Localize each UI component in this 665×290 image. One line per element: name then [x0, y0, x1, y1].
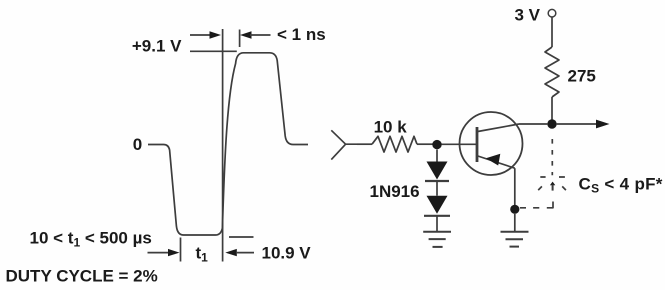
- rise-time dimension arrow (left, pointing right): [190, 34, 212, 36]
- svg-text:t1: t1: [196, 244, 209, 265]
- t1 left tick: [180, 238, 182, 262]
- wire supply to resistor: [551, 17, 553, 47]
- output arrow: [556, 123, 597, 125]
- wire base node to diode D1: [436, 150, 438, 162]
- capacitor CS center arrowhead on lead: [550, 182, 555, 186]
- capacitor CS bottom plate (dashed curved): [538, 186, 566, 190]
- wire base node to transistor: [442, 143, 477, 145]
- node emitter junction: [510, 205, 519, 214]
- svg-text:10 k: 10 k: [374, 118, 408, 137]
- node collector junction: [547, 119, 556, 128]
- t1 dimension arrow (left, pointing right): [148, 252, 170, 254]
- svg-text:10 < t1 < 500 µs: 10 < t1 < 500 µs: [30, 229, 152, 250]
- node base junction: [432, 140, 441, 149]
- transistor Q1: [460, 112, 523, 175]
- -10.9 V level line: [229, 236, 254, 238]
- ground (diodes): [423, 231, 451, 233]
- rise-time tick: [239, 30, 241, 48]
- resistor R2 10 k: [372, 136, 417, 152]
- waveform trace: [148, 53, 308, 235]
- wire collector to node: [519, 123, 548, 125]
- svg-text:275: 275: [568, 67, 596, 86]
- diode D1 1N916: [427, 162, 448, 180]
- wire D1 to D2: [436, 181, 438, 196]
- svg-text:0: 0: [133, 135, 142, 154]
- capacitor CS lead corner to emitter node (dashed): [547, 202, 553, 208]
- wire resistor to base node: [417, 143, 433, 145]
- wire emitter down: [514, 168, 516, 205]
- t1 dimension arrow (right, pointing left): [225, 249, 237, 256]
- capacitor CS top plate (dashed): [540, 176, 565, 178]
- stray capacitance CS (dashed) lead from collector node: [551, 139, 553, 175]
- ground (emitter): [501, 231, 529, 233]
- svg-text:3 V: 3 V: [515, 5, 541, 24]
- wire emitter node to ground: [514, 214, 516, 232]
- wire resistor to collector node: [551, 97, 553, 120]
- +9.1 V level line: [190, 50, 237, 52]
- rise-time vertical marker line: [222, 29, 224, 262]
- svg-text:10.9 V: 10.9 V: [262, 244, 312, 263]
- resistor R1 275: [545, 47, 559, 97]
- svg-text:1N916: 1N916: [370, 182, 420, 201]
- wire chevron to resistor: [357, 143, 372, 145]
- diode D2 1N916: [427, 196, 448, 214]
- svg-text:< 1 ns: < 1 ns: [277, 25, 326, 44]
- supply terminal 3 V: [548, 9, 556, 17]
- svg-text:DUTY CYCLE = 2%: DUTY CYCLE = 2%: [6, 266, 158, 285]
- svg-text:+9.1 V: +9.1 V: [132, 37, 182, 56]
- svg-text:CS < 4 pF*: CS < 4 pF*: [579, 175, 663, 196]
- rise-time dimension arrow (right, pointing left): [240, 31, 252, 38]
- wire D2 to ground: [436, 216, 438, 232]
- input source chevron: [331, 130, 357, 159]
